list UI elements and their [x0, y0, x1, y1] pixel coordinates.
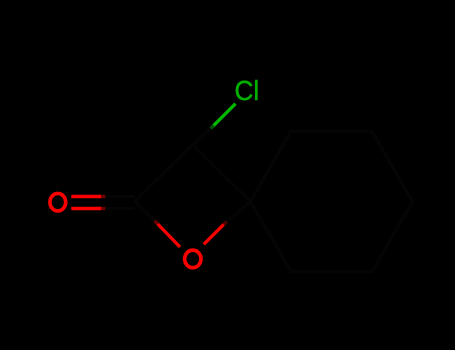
atom label: ring oxygen O1: [185, 250, 201, 268]
bond C2=O red half (bottom line): [71, 207, 105, 210]
bond C2-C3: [135, 145, 193, 202]
atom label: carbonyl oxygen O: [50, 193, 66, 211]
wire: invisible carbon skeleton (black-on-black bonds): [104, 127, 413, 272]
bond C2-O1 black half: [135, 202, 157, 223]
bond O1-C4 red half: [204, 221, 227, 244]
svg-text:Cl: Cl: [235, 75, 260, 106]
bond C2=O red half (top line): [71, 195, 105, 198]
bond C2=O black half (top line): [104, 195, 135, 198]
bond C2-O1 red half: [155, 221, 181, 247]
bond C2=O black half (bottom line): [104, 207, 135, 210]
bond O1-C4 black half: [226, 202, 251, 223]
bond C3-C4: [193, 145, 251, 202]
bond C3-Cl green half: [211, 104, 236, 129]
spiro cyclohexane ring at C4: [251, 131, 413, 271]
bond C3-Cl black half: [193, 127, 213, 145]
